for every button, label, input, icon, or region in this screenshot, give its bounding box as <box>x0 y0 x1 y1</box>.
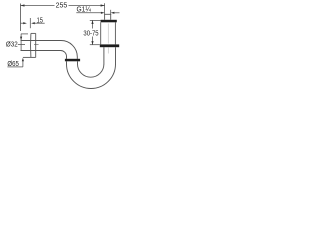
top slip nut <box>101 20 117 23</box>
downpipe below nut <box>67 61 78 64</box>
inlet pipe bottom line <box>21 50 61 52</box>
G 1 1/4 extension line left (shared with 255) <box>104 3 106 14</box>
svg-text:15: 15 <box>37 17 43 24</box>
union nut <box>100 44 119 47</box>
svg-text:G1¼: G1¼ <box>77 4 92 13</box>
dimension 30-75 top extension line <box>90 19 101 21</box>
dimension 30-75 bottom extension line <box>90 44 100 46</box>
diameter 32 dimension arrow <box>20 34 28 50</box>
diameter 65 leader with arrow <box>7 58 24 67</box>
inlet pipe top line <box>21 40 62 42</box>
elbow outer curve <box>61 41 77 59</box>
pipe centerline dash <box>34 44 39 46</box>
G 1 1/4 right arrow <box>111 12 120 14</box>
telescopic tube center line <box>107 24 109 44</box>
dimension 15 left arrow <box>21 22 27 24</box>
dimension 255 right arrow <box>101 4 105 6</box>
dimension 30-75 line with arrows <box>91 20 93 44</box>
dimension 15 extension line <box>29 18 31 28</box>
svg-text:30-75: 30-75 <box>83 31 98 38</box>
svg-text:255: 255 <box>56 0 68 9</box>
U-bend outer curve <box>67 64 116 89</box>
elbow inner curve <box>60 50 67 58</box>
telescopic tube between nuts <box>101 22 116 44</box>
wall extension line <box>20 4 22 32</box>
riser centerline <box>107 48 109 54</box>
wall escutcheon <box>23 33 36 57</box>
riser tube below union nut <box>104 47 116 64</box>
elbow slip nut <box>65 59 80 62</box>
svg-text:Ø32: Ø32 <box>6 40 18 49</box>
diameter 32 leader dash <box>18 44 25 46</box>
threaded tailpiece <box>104 14 111 20</box>
G 1 1/4 extension line right <box>110 10 112 14</box>
U-bend inner curve <box>78 64 104 77</box>
dimension 255 left arrow <box>21 4 25 6</box>
dimension 255 line <box>21 5 105 7</box>
G 1 1/4 leader underline with arrow <box>76 12 104 14</box>
dimension 15 right arrow and underline <box>31 22 45 24</box>
